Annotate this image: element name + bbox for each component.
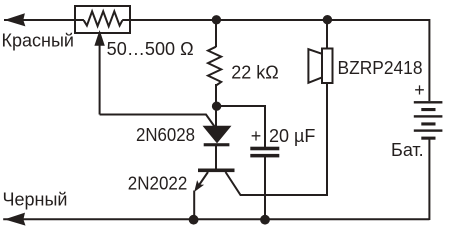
battery BT1: plate 6 short [421,137,435,140]
wire: top rail down to buzzer [326,20,328,49]
svg-text:Красный: Красный [2,31,74,51]
wire: bottom ground rail [3,218,429,220]
svg-text:2N2022: 2N2022 [128,174,188,194]
node: junction dot top rail / 22k resistor [212,15,221,24]
PUT U1 2N6028: cathode bar [204,143,230,146]
potentiometer R1: resistive element zigzag [84,11,123,26]
wire: top supply rail (right of potentiometer) [122,19,429,21]
wire: top rail to 22k resistor [215,20,217,47]
battery BT1: plate 5 long [414,129,443,131]
node: junction dot at PUT anode / capacitor branch [212,102,221,111]
buzzer BZ1: body rectangle [322,49,333,84]
potentiometer R1: body box [75,6,130,33]
wire: anode node right then down to capacitor [216,106,265,147]
PUT U1 2N6028: gate lead from wiper [100,115,215,127]
transistor Q1 2N2022: emitter lead with arrow [194,172,208,219]
battery BT1: plate 4 short [421,122,435,125]
battery BT1: plate 1 long [414,101,443,103]
capacitor C1: bottom plate [250,154,279,158]
resistor R2 22 kΩ: zigzag [208,47,221,86]
transistor Q1 2N2022: base bar [198,169,235,173]
svg-text:+: + [414,80,425,100]
node: junction dot top rail / buzzer branch [323,15,332,24]
svg-text:20 µF: 20 µF [269,126,315,146]
wire: 22k resistor to anode node [215,84,217,106]
svg-text:Черный: Черный [3,190,68,210]
battery BT1: plate 2 short [421,108,435,111]
wire: anode node down to PUT [215,106,217,128]
svg-text:22 kΩ: 22 kΩ [231,63,278,83]
svg-text:50…500 Ω: 50…500 Ω [107,39,194,59]
wire: top supply rail (left of potentiometer) [4,19,84,21]
transistor Q1 2N2022: collector lead [226,84,328,195]
PUT U1 2N6028: anode triangle [204,126,231,142]
wire: battery minus to ground rail [428,139,430,220]
wire: right edge from top rail to battery [428,19,430,101]
svg-text:Бат.: Бат. [391,140,424,160]
terminal arrow: red lead (left, top) [4,13,25,26]
wire: PUT cathode to transistor base [215,146,217,169]
svg-text:2N6028: 2N6028 [136,125,195,145]
capacitor C1: top plate [250,147,279,151]
node: junction dot ground rail / capacitor [260,215,270,225]
terminal arrow: black lead (left, bottom) [5,213,26,226]
svg-text:BZRP2418: BZRP2418 [338,58,423,78]
wire: capacitor bottom to ground rail [264,157,266,219]
battery BT1: plate 3 long [414,115,443,117]
node: junction dot ground rail / emitter [189,215,199,225]
buzzer BZ1: cone [308,49,322,83]
potentiometer R1: wiper arrow [94,30,104,115]
svg-text:+: + [251,126,262,146]
